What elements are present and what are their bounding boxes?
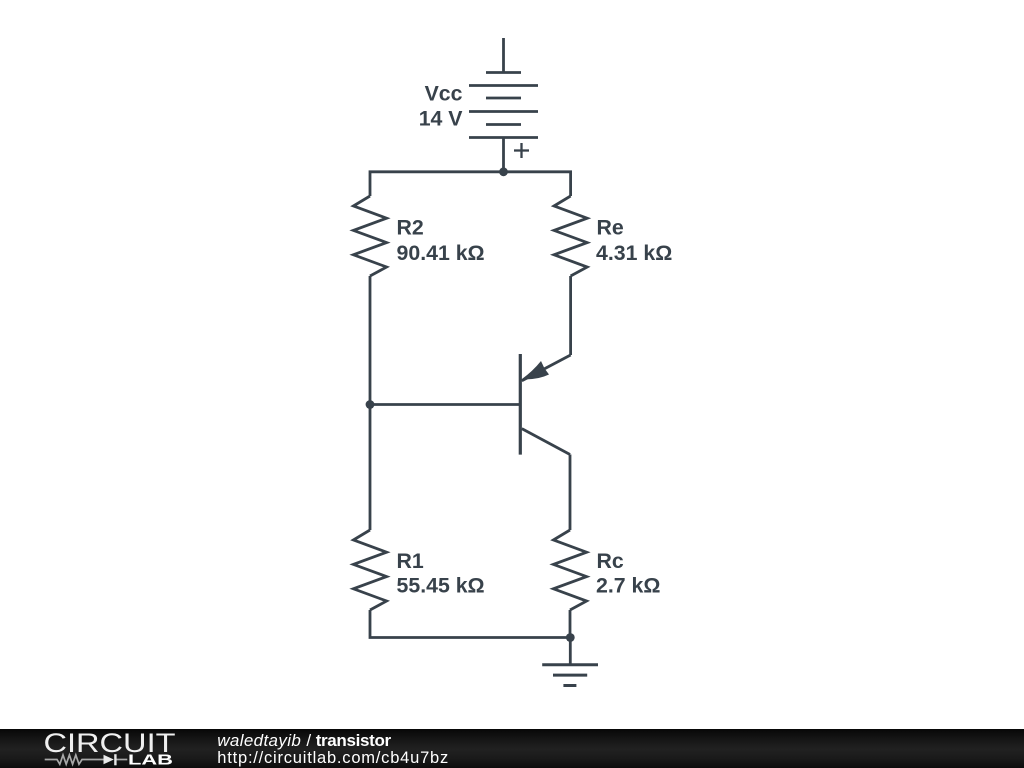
wire collector to Rc top — [569, 455, 572, 531]
ground symbol — [542, 665, 598, 686]
wire base node to R1 top — [369, 405, 372, 531]
transistor Q1 collector diagonal — [522, 429, 570, 455]
junction node at bottom rail — [566, 633, 575, 642]
resistor Rc — [553, 530, 586, 610]
junction node at top rail — [499, 167, 508, 176]
svg-text:http://circuitlab.com/cb4u7bz: http://circuitlab.com/cb4u7bz — [217, 749, 449, 767]
resistor Re — [554, 196, 587, 276]
resistor R2 — [353, 196, 386, 276]
wire R2 bottom to base node — [369, 276, 372, 405]
wire battery bottom to top rail — [502, 138, 505, 172]
footer bar — [0, 729, 1024, 768]
wire bottom rail to ground — [569, 638, 572, 665]
transistor Q1 base bar — [519, 354, 522, 455]
wire base from node to Q1 — [370, 403, 519, 406]
resistor R1 — [353, 530, 386, 610]
battery V1 plates — [469, 73, 538, 138]
wire top rail — [370, 172, 571, 196]
logo resistor-diode squiggle — [45, 754, 128, 765]
battery V1 plus polarity mark — [514, 143, 529, 158]
wire Re bottom to emitter — [569, 276, 572, 355]
svg-text:waledtayib/transistor: waledtayib/transistor — [217, 731, 391, 750]
battery V1 top lead wire — [502, 38, 505, 73]
transistor Q1 emitter arrowhead — [522, 361, 549, 379]
wire R1 bottom to bottom rail — [370, 610, 570, 638]
transistor Q1 emitter diagonal — [522, 355, 571, 381]
junction node at base — [366, 400, 375, 409]
wire Rc bottom to bottom rail — [569, 610, 572, 638]
svg-text:LAB: LAB — [128, 753, 173, 768]
